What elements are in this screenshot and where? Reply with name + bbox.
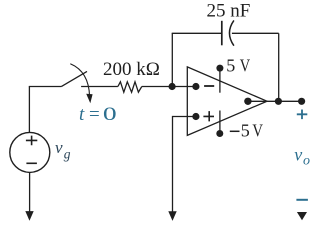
switch blade (open, pivot at left contact) (62, 71, 88, 86)
op-amp U1 triangle (187, 67, 267, 135)
op-amp negative supply terminal dot (216, 130, 223, 137)
svg-text:=: = (89, 104, 100, 125)
reference ground triangle at output (297, 212, 307, 220)
op-amp positive supply pin wire (219, 68, 221, 93)
wire: feedback top horizontal (left of capacitor) (172, 32, 222, 34)
wire: feedback top horizontal (right of capacitor) (232, 32, 279, 34)
op-amp inverting input terminal dot (192, 83, 199, 90)
voltage source minus marking (26, 162, 37, 164)
wire: feedback left vertical (171, 33, 173, 86)
wire: top-left horizontal from corner to switch contact (29, 86, 62, 88)
op-amp minus marking (204, 85, 214, 87)
op-amp negative supply pin wire (219, 111, 221, 134)
svg-text:V: V (252, 121, 263, 141)
label t = 0 (79, 104, 117, 125)
ground arrow under noninverting input (168, 211, 176, 221)
switch closing arrow arc (70, 64, 89, 97)
switch arrowhead (86, 94, 92, 104)
svg-text:25 nF: 25 nF (206, 1, 250, 22)
wire: feedback right vertical down to output (278, 33, 280, 101)
wire: noninverting input down to ground (172, 116, 174, 212)
label -5 V (230, 121, 263, 141)
wire: resistor to inverting input (142, 86, 196, 88)
wire: switch right contact to resistor (81, 86, 118, 88)
wire: source bottom to ground (29, 172, 31, 212)
capacitor C (25 nF) left plate (221, 21, 223, 46)
label 5 V (226, 56, 250, 76)
wire: left vertical from switch row down to source top (28, 87, 30, 133)
svg-text:200 kΩ: 200 kΩ (103, 59, 160, 80)
op-amp output terminal dot (244, 98, 251, 105)
resistor R (200 kΩ) zigzag (118, 82, 142, 92)
svg-text:0: 0 (103, 104, 117, 125)
node: feedback junction on inverting wire (169, 83, 176, 90)
capacitor C (25 nF) right curved plate (229, 20, 233, 45)
op-amp plus marking (203, 111, 214, 121)
svg-text:t: t (79, 104, 85, 125)
ground arrow under source (25, 211, 33, 221)
op-amp noninverting input terminal dot (192, 113, 199, 120)
output polarity minus (blue) (296, 199, 308, 201)
svg-text:5: 5 (241, 121, 250, 141)
voltage source vg circle (10, 132, 50, 172)
wire: output to terminal (248, 100, 302, 102)
node: feedback junction on output wire (275, 98, 282, 105)
output polarity plus (blue) (297, 110, 308, 120)
svg-text:V: V (240, 56, 250, 76)
voltage source plus marking (26, 136, 37, 146)
op-amp positive supply terminal dot (216, 65, 223, 72)
wire: noninverting input stub (173, 116, 196, 118)
node: output terminal end dot (298, 98, 305, 105)
svg-text:5: 5 (226, 56, 235, 76)
